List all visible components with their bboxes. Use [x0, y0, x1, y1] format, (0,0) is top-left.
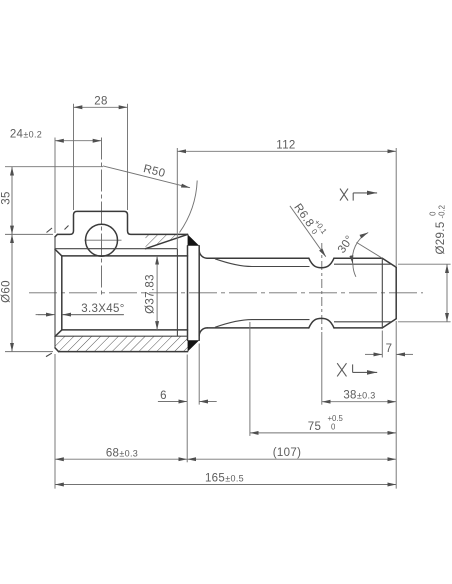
svg-text:68±0.3: 68±0.3 [106, 447, 138, 459]
svg-text:165±0.5: 165±0.5 [205, 473, 244, 485]
svg-text:112: 112 [276, 139, 295, 151]
svg-text:-0.2: -0.2 [438, 205, 447, 218]
svg-text:35: 35 [0, 191, 12, 205]
svg-text:3.3X45°: 3.3X45° [81, 303, 125, 315]
svg-text:Ø29.5: Ø29.5 [435, 221, 447, 254]
svg-text:75: 75 [308, 421, 322, 433]
svg-text:(107): (107) [273, 447, 302, 459]
svg-text:7: 7 [386, 343, 393, 355]
svg-text:0: 0 [331, 423, 336, 432]
svg-text:0: 0 [429, 211, 438, 216]
svg-text:+0.5: +0.5 [328, 414, 344, 423]
svg-text:38±0.3: 38±0.3 [343, 390, 375, 402]
svg-text:Ø60: Ø60 [0, 280, 12, 303]
svg-text:6: 6 [160, 390, 167, 402]
svg-text:28: 28 [94, 95, 108, 107]
svg-text:Ø37.83: Ø37.83 [144, 274, 156, 314]
svg-text:24±0.2: 24±0.2 [10, 129, 42, 141]
